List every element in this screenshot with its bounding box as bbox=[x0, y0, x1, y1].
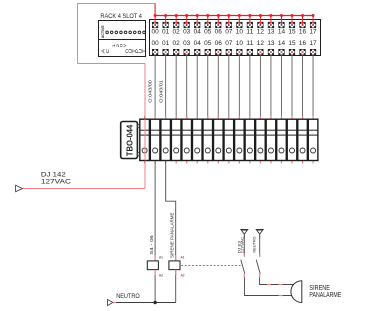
svg-text:07: 07 bbox=[225, 29, 233, 36]
TBO-044 terminal cell 17 bbox=[308, 116, 318, 164]
connection tick A2 of siren coil bbox=[175, 270, 177, 276]
TBO-044 terminal cell 4 bbox=[171, 116, 181, 164]
output channel 16: bus dot, drop, screw terminals, labels, wire to TBO-044 bbox=[299, 14, 307, 119]
wire contact 2 down and right to siren (top lead) bbox=[260, 277, 295, 284]
supply flag DJ E3 bbox=[240, 230, 248, 239]
127VAC wire crossing TBO cell 1 bbox=[144, 119, 146, 160]
contact (NO) of NEUTRO (siren) bbox=[256, 254, 260, 278]
svg-text:16: 16 bbox=[299, 40, 307, 47]
svg-text:00: 00 bbox=[152, 40, 160, 47]
label DJ E3 / 127VAC (rotated) bbox=[236, 237, 244, 254]
label SIRENE PANALARME bbox=[309, 283, 341, 299]
svg-text:NEUTRO: NEUTRO bbox=[116, 293, 140, 300]
svg-text:A1: A1 bbox=[159, 255, 163, 259]
contact (NO) of DJ E3 bbox=[241, 254, 245, 278]
svg-text:04: 04 bbox=[194, 40, 202, 47]
svg-text:A2: A2 bbox=[159, 273, 163, 277]
svg-text:11: 11 bbox=[246, 29, 254, 36]
TBO-044 terminal cell 2 bbox=[150, 116, 160, 164]
svg-text:SIRENE PANALARME: SIRENE PANALARME bbox=[170, 212, 175, 258]
svg-text:05: 05 bbox=[204, 29, 212, 36]
output channel 14: bus dot, drop, screw terminals, labels, wire to TBO-044 bbox=[278, 14, 286, 119]
TBO-044 terminal cell 16 bbox=[298, 116, 308, 164]
connection tick at NEUTRO flag bbox=[113, 302, 117, 304]
TBO-044 terminal cell 14 bbox=[277, 116, 287, 164]
TBO-044 terminal cell 8 bbox=[214, 116, 224, 164]
output channel 17: bus dot, drop, screw terminals, labels, wire to TBO-044 bbox=[309, 14, 317, 119]
output channel 15: bus dot, drop, screw terminals, labels, wire to TBO-044 bbox=[288, 14, 296, 119]
output channel 05: bus dot, drop, screw terminals, labels, wire to TBO-044 bbox=[204, 14, 212, 119]
output channel 04: bus dot, drop, screw terminals, labels, wire to TBO-044 bbox=[194, 14, 202, 119]
source flag NEUTRO (open triangle) bbox=[108, 299, 113, 305]
wire NEUTRO (siren) flag to contact bbox=[259, 234, 261, 257]
module text: AC (120V) OUTPUT (rotated letters) bbox=[101, 43, 147, 53]
svg-text:14: 14 bbox=[278, 40, 286, 47]
wire: coil S4-06 to NEUTRO bus bbox=[154, 270, 156, 303]
siren horn LS1 bbox=[291, 281, 302, 303]
svg-text:127VAC: 127VAC bbox=[41, 178, 71, 185]
relay coil K2 (siren pilot) bbox=[169, 255, 185, 277]
module status LED 8 bbox=[138, 31, 141, 34]
svg-text:05: 05 bbox=[204, 40, 212, 47]
output module body outline bbox=[99, 21, 146, 57]
TBO-044 terminal cell 10 bbox=[235, 116, 245, 164]
TBO-044 terminal cell 12 bbox=[256, 116, 266, 164]
output channel 13: bus dot, drop, screw terminals, labels, wire to TBO-044 bbox=[267, 14, 275, 119]
svg-text:O:043/00: O:043/00 bbox=[147, 79, 152, 102]
label mounting tab (bottom) bbox=[138, 153, 141, 156]
svg-text:RACK 4 SLOT 4: RACK 4 SLOT 4 bbox=[100, 13, 142, 20]
output channel 10: bus dot, drop, screw terminals, labels, wire to TBO-044 bbox=[236, 14, 244, 119]
svg-text:07: 07 bbox=[225, 40, 233, 47]
output channel 01: bus dot, drop, screw terminals, labels, wire to TBO-044 bbox=[162, 14, 170, 119]
svg-text:10: 10 bbox=[236, 40, 244, 47]
svg-text:16: 16 bbox=[299, 29, 307, 36]
TBO-044 terminal cell 13 bbox=[266, 116, 276, 164]
svg-text:PANALARME: PANALARME bbox=[309, 290, 341, 299]
connection tick at DJ 142 flag bbox=[23, 188, 27, 190]
connection ticks on siren leads bbox=[267, 284, 271, 286]
svg-text:04: 04 bbox=[194, 29, 202, 36]
svg-text:O:043/01: O:043/01 bbox=[158, 79, 163, 102]
wire DJ E3 flag to contact bbox=[243, 234, 245, 257]
svg-text:127VAC: 127VAC bbox=[239, 237, 244, 254]
module status LED 5 bbox=[124, 31, 127, 34]
TBO-044 terminal cell 11 bbox=[245, 116, 255, 164]
module internal divider bbox=[99, 39, 146, 41]
svg-text:12: 12 bbox=[257, 40, 265, 47]
svg-text:17: 17 bbox=[309, 40, 317, 47]
module status LED 4 bbox=[120, 31, 123, 34]
output channel 07: bus dot, drop, screw terminals, labels, wire to TBO-044 bbox=[225, 14, 233, 119]
svg-text:13: 13 bbox=[267, 29, 275, 36]
TBO-044 terminal cell 7 bbox=[203, 116, 213, 164]
svg-text:02: 02 bbox=[173, 29, 181, 36]
relay coil K1 (S4-06) bbox=[147, 255, 163, 277]
svg-text:TBO-044: TBO-044 bbox=[126, 124, 135, 156]
output channel 02: bus dot, drop, screw terminals, labels, wire to TBO-044 bbox=[173, 14, 181, 119]
127VAC red bus along terminals bbox=[155, 15, 313, 17]
svg-text:ACTIVE: ACTIVE bbox=[100, 25, 105, 38]
svg-text:13: 13 bbox=[267, 40, 275, 47]
svg-text:06: 06 bbox=[215, 40, 223, 47]
svg-text:12: 12 bbox=[257, 29, 265, 36]
wire: TBO cell 2 down to coil S4-06 bbox=[154, 161, 156, 261]
svg-text:NEUTRO: NEUTRO bbox=[252, 237, 257, 253]
127VAC feed wire: horizontal run to TBO-044 cell 1 bbox=[78, 63, 146, 65]
svg-text:10: 10 bbox=[236, 29, 244, 36]
svg-text:A1: A1 bbox=[181, 255, 185, 259]
supply flag NEUTRO (siren) bbox=[256, 230, 264, 239]
module status LED 9 bbox=[143, 31, 146, 34]
svg-text:15: 15 bbox=[288, 40, 296, 47]
svg-text:06: 06 bbox=[215, 29, 223, 36]
wire contact DJ E3 down and right to siren (bottom lead) bbox=[245, 277, 293, 295]
label mounting tab (top) bbox=[138, 125, 141, 128]
svg-text:14: 14 bbox=[278, 29, 286, 36]
127VAC feed wire: horizontal run to DJ 142 source bbox=[23, 188, 146, 190]
svg-text:02: 02 bbox=[173, 40, 181, 47]
module status LED 6 bbox=[129, 31, 132, 34]
label DJ 142 / 127VAC bbox=[41, 171, 71, 185]
module status LED 7 bbox=[134, 31, 137, 34]
module status LED 2 bbox=[110, 31, 113, 34]
TBO-044 terminal cell 5 bbox=[182, 116, 192, 164]
output channel 03: bus dot, drop, screw terminals, labels, wire to TBO-044 bbox=[183, 14, 191, 119]
output channel 00: bus dot, drop, screw terminals, labels, wire to TBO-044 bbox=[152, 14, 160, 119]
TBO-044 terminal cell 3 bbox=[161, 116, 171, 164]
terminal block label TBO-044 bbox=[121, 122, 138, 159]
svg-text:C: C bbox=[105, 49, 110, 53]
127VAC feed wire: vertical run through TBO-044 cell 1 bbox=[144, 64, 146, 189]
svg-text:01: 01 bbox=[162, 29, 170, 36]
wire: TBO cell 3 down with jog to coil SIRENE PANALARME bbox=[166, 161, 176, 261]
svg-text:03: 03 bbox=[183, 40, 191, 47]
NEUTRO bus wire bbox=[113, 302, 176, 304]
svg-text:15: 15 bbox=[288, 29, 296, 36]
svg-text:17: 17 bbox=[309, 29, 317, 36]
mechanical link (dashed) coil K2 to contacts bbox=[181, 264, 240, 266]
svg-text:00: 00 bbox=[152, 29, 160, 36]
wire: siren coil to NEUTRO bus corner bbox=[175, 270, 177, 303]
source flag DJ 142 (open triangle) bbox=[16, 185, 23, 191]
rack field-wiring terminal box bbox=[150, 20, 321, 56]
TBO-044 terminal cell 9 bbox=[224, 116, 234, 164]
127VAC feed wire: left vertical run bbox=[77, 4, 79, 64]
svg-text:03: 03 bbox=[183, 29, 191, 36]
connection tick A1 of S4-06 bbox=[154, 255, 156, 261]
connection tick A1 of siren coil bbox=[175, 255, 177, 261]
connection tick A2 of S4-06 bbox=[154, 270, 156, 276]
output channel 06: bus dot, drop, screw terminals, labels, wire to TBO-044 bbox=[215, 14, 223, 119]
svg-text:S4 - 06: S4 - 06 bbox=[149, 234, 154, 254]
svg-text:A2: A2 bbox=[181, 273, 185, 277]
module status LED 1 bbox=[106, 31, 109, 34]
svg-text:01: 01 bbox=[162, 40, 170, 47]
output channel 12: bus dot, drop, screw terminals, labels, wire to TBO-044 bbox=[257, 14, 265, 119]
TBO-044 terminal cell 1 bbox=[140, 116, 150, 164]
output channel 11: bus dot, drop, screw terminals, labels, wire to TBO-044 bbox=[246, 14, 254, 119]
TBO-044 terminal cell 6 bbox=[192, 116, 202, 164]
127VAC feed wire: top horizontal run bbox=[78, 3, 156, 5]
junction dot on NEUTRO bus bbox=[153, 301, 156, 304]
module status LED 3 bbox=[115, 31, 118, 34]
bus riser from top run bbox=[154, 4, 156, 16]
TBO-044 terminal cell 15 bbox=[287, 116, 297, 164]
svg-text:11: 11 bbox=[246, 40, 254, 47]
